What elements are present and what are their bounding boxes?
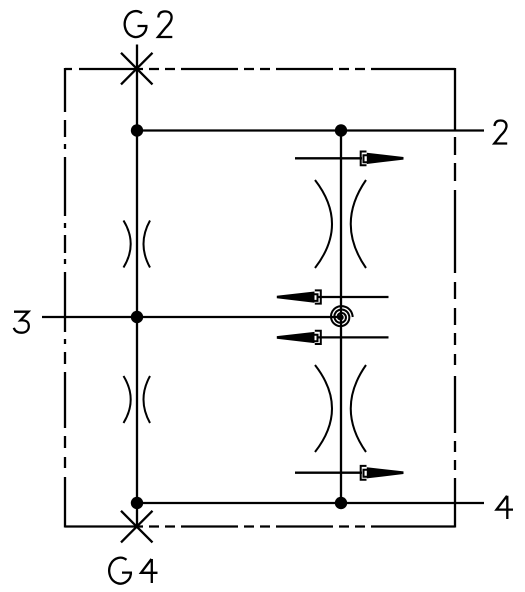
wire: left vertical line (G2-G4 gallery) — [136, 45, 138, 527]
enclosure border bottom (phantom line) — [65, 525, 455, 527]
junction node at line3/left vertical — [131, 311, 143, 323]
orifice (venturi) upper left — [124, 221, 151, 268]
wire: right vertical line — [340, 131, 342, 504]
junction node at line4/right vertical — [335, 497, 347, 509]
enclosure border right (phantom line) — [454, 68, 456, 528]
junction node at line4/left vertical — [131, 497, 143, 509]
wire: port 3 horizontal line — [42, 316, 342, 318]
wire: port 4 horizontal line — [137, 502, 484, 504]
flow arrow middle lower (pointing left) — [277, 331, 389, 344]
adjustable restrictor spiral — [331, 306, 353, 326]
label 2 (port) — [494, 121, 507, 144]
flow arrow lower right (pointing right) — [295, 466, 404, 480]
plugged port G4 (cross) — [121, 511, 153, 543]
junction node at line2/right vertical — [335, 124, 347, 136]
wire: port 2 horizontal line — [137, 129, 484, 131]
label G2 — [125, 11, 173, 37]
enclosure border top (phantom line) — [65, 68, 455, 70]
orifice (venturi) upper right — [315, 180, 366, 268]
label 4 (port) — [497, 496, 514, 519]
orifice (venturi) lower left — [124, 376, 151, 423]
label G4 — [109, 558, 157, 584]
junction node at line2/left vertical — [131, 124, 143, 136]
flow arrow upper right (pointing right) — [295, 152, 404, 166]
enclosure border left (phantom line) — [64, 68, 66, 528]
label 3 (port) — [14, 312, 29, 333]
plugged port G2 (cross) — [121, 53, 153, 85]
orifice (venturi) lower right — [315, 365, 366, 452]
flow arrow middle upper (pointing left) — [277, 290, 389, 303]
